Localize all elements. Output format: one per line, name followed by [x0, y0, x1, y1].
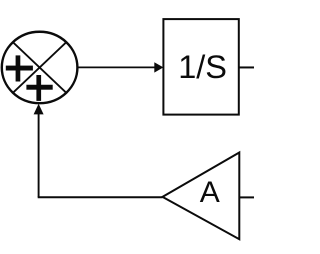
- svg-text:1/S: 1/S: [178, 49, 227, 85]
- svg-text:A: A: [200, 176, 220, 209]
